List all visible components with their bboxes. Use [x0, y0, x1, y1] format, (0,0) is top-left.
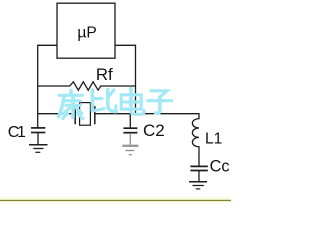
svg-text:Rf: Rf [96, 65, 113, 84]
svg-text:Cc: Cc [210, 158, 230, 176]
svg-text:µP: µP [77, 25, 96, 42]
svg-text:C2: C2 [143, 121, 165, 140]
svg-text:L1: L1 [205, 130, 222, 147]
svg-text:C1: C1 [8, 124, 26, 141]
